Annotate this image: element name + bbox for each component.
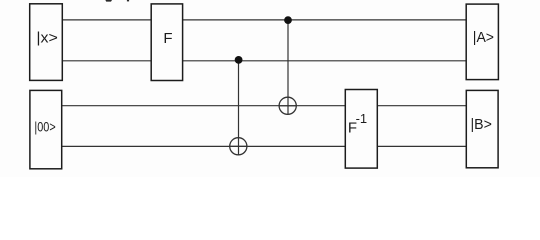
input register box |x> <box>30 4 63 81</box>
CNOT target on wire w4 <box>230 138 247 155</box>
wire w2 left: |x> to F, second rail <box>62 60 151 62</box>
output register box |A> <box>466 4 498 80</box>
control dot on wire w1 <box>284 16 292 24</box>
wire w3 left: |00> to F^-1, third rail <box>62 105 346 107</box>
output register box |B> <box>466 90 498 167</box>
vertical control line v1: from control dot on w1 to target on w3 <box>287 20 289 114</box>
control dot on wire w2 <box>235 56 243 64</box>
wire w4 right: F^-1 to |B>, fourth rail <box>377 145 466 147</box>
CNOT target cross horizontal on w3 <box>279 105 296 107</box>
wire w1 left: |x> to F, top rail <box>62 19 151 21</box>
wire w3 right: F^-1 to |B>, third rail <box>377 105 466 107</box>
gate box F^-1 <box>345 90 377 169</box>
svg-text:F: F <box>163 30 172 47</box>
svg-text:|00>: |00> <box>34 118 55 134</box>
svg-text:|A>: |A> <box>473 29 494 46</box>
vertical control line v2: from control dot on w2 to target on w4 <box>238 60 240 155</box>
cut-off caption text remnant "g" <box>105 0 112 2</box>
cut-off caption text remnant "p" <box>127 0 129 1</box>
gate box F <box>151 4 182 81</box>
svg-text:|B>: |B> <box>471 116 493 133</box>
svg-text:|x>: |x> <box>36 29 58 46</box>
CNOT target on wire w3 <box>279 97 296 114</box>
CNOT target cross horizontal on w4 <box>230 145 247 147</box>
wire w1 right: F to |A>, top rail <box>183 19 467 21</box>
wire w2 right: F to |A>, second rail <box>183 60 467 62</box>
input register box |00> <box>30 90 62 168</box>
wire w4 left: |00> to F^-1, fourth rail <box>62 145 346 147</box>
